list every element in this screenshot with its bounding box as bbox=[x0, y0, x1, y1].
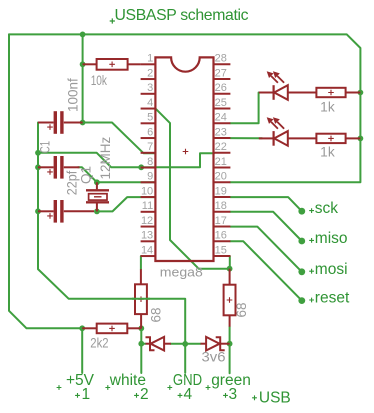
node mosi bbox=[298, 268, 305, 275]
pin 16 stub bbox=[214, 240, 231, 242]
svg-text:2k2: 2k2 bbox=[90, 335, 108, 350]
svg-text:8: 8 bbox=[147, 156, 153, 168]
svg-text:miso: miso bbox=[315, 230, 348, 247]
svg-text:1k: 1k bbox=[320, 145, 335, 160]
pin 19 stub bbox=[214, 196, 231, 198]
zener diode D1 3v6 (left) bbox=[146, 343, 151, 345]
resistor R3 1k bbox=[316, 134, 345, 143]
svg-text:16: 16 bbox=[215, 230, 227, 242]
wire 100nf to pin 7 bbox=[83, 123, 155, 154]
pin 21 stub bbox=[214, 167, 231, 169]
svg-text:+5V: +5V bbox=[66, 372, 95, 389]
pin 12 stub bbox=[141, 226, 156, 228]
wire GND to pin 8 and pin 22 bbox=[38, 153, 214, 168]
IC U1 origin cross bbox=[183, 149, 189, 155]
pin 25 stub bbox=[214, 108, 231, 110]
junction GND rail / pin8 wire bbox=[35, 150, 41, 156]
svg-text:mega8: mega8 bbox=[160, 265, 203, 280]
pin 3 stub bbox=[141, 93, 156, 95]
junction 2k2 / +5V bbox=[79, 325, 85, 331]
svg-text:1: 1 bbox=[147, 53, 153, 65]
svg-text:68: 68 bbox=[234, 302, 249, 317]
svg-text:28: 28 bbox=[215, 53, 227, 65]
svg-text:4: 4 bbox=[147, 97, 153, 109]
svg-text:9: 9 bbox=[147, 171, 153, 183]
node miso bbox=[298, 238, 305, 245]
capacitor C2 22pf bbox=[38, 166, 54, 168]
pin 6 stub bbox=[141, 137, 156, 139]
junction GND rail / C2 bbox=[35, 164, 41, 170]
pin 4 stub bbox=[141, 108, 156, 110]
crystal Q1 12MHz bbox=[96, 182, 98, 189]
svg-text:7: 7 bbox=[147, 141, 153, 153]
wire VCC: top rail, right rail down to pin 20 bbox=[9, 34, 360, 182]
svg-text:11: 11 bbox=[142, 200, 153, 212]
junction 100nf/VCC bbox=[80, 120, 86, 126]
wire GND: left ground rail to GND terminal bbox=[38, 123, 185, 373]
pin 14 stub bbox=[141, 255, 156, 257]
pin 17 stub bbox=[214, 226, 231, 228]
wire pin 24 to LED1 bbox=[230, 93, 262, 124]
junction zener row / GND bbox=[182, 341, 188, 347]
LED LED1 bbox=[259, 92, 274, 94]
svg-text:26: 26 bbox=[215, 82, 227, 94]
svg-text:1k: 1k bbox=[320, 100, 335, 115]
pin 1 stub bbox=[141, 63, 156, 65]
junction VCC top bbox=[80, 32, 86, 38]
svg-text:sck: sck bbox=[315, 200, 339, 217]
wire GND overlay across R4 bbox=[132, 298, 150, 300]
svg-text:22: 22 bbox=[215, 141, 227, 153]
pin 20 stub bbox=[214, 181, 231, 183]
junction pin15 / 68-ohm bbox=[227, 266, 233, 272]
svg-text:2: 2 bbox=[140, 386, 149, 403]
pin 22 stub bbox=[214, 152, 231, 154]
svg-text:100nf: 100nf bbox=[66, 78, 81, 112]
wire pin 14 to 68-ohm resistor bbox=[140, 256, 142, 269]
junction R-1k LED1 / right rail bbox=[358, 90, 364, 96]
svg-text:22pf: 22pf bbox=[65, 171, 80, 196]
svg-text:21: 21 bbox=[215, 156, 227, 168]
svg-text:2: 2 bbox=[147, 67, 153, 79]
resistor R6 2k2 bbox=[82, 327, 97, 329]
svg-text:17: 17 bbox=[215, 215, 227, 227]
svg-text:reset: reset bbox=[315, 290, 350, 307]
wire pin 17 to mosi bbox=[230, 227, 302, 272]
pin 2 stub bbox=[141, 78, 156, 80]
pin 7 stub bbox=[141, 152, 156, 154]
pin 15 stub bbox=[214, 255, 231, 257]
zener diode D2 3v6 (right) bbox=[201, 343, 207, 345]
IC U1 mega8 body (DIL28) bbox=[155, 57, 213, 261]
svg-text:mosi: mosi bbox=[315, 261, 348, 278]
LED LED2 bbox=[259, 137, 274, 139]
svg-text:15: 15 bbox=[215, 244, 227, 256]
pin 26 stub bbox=[214, 93, 231, 95]
junction crystal bottom bbox=[94, 209, 100, 215]
svg-text:12: 12 bbox=[141, 215, 153, 227]
pin 27 stub bbox=[214, 78, 231, 80]
wire pin 23 to LED2 bbox=[230, 137, 262, 139]
svg-text:4: 4 bbox=[184, 386, 193, 403]
wire to +5V terminal bbox=[81, 328, 83, 373]
pin 13 stub bbox=[141, 240, 156, 242]
junction 2k2 / 68-ohm / white bbox=[138, 325, 144, 331]
svg-text:5: 5 bbox=[147, 112, 153, 124]
svg-text:3: 3 bbox=[147, 82, 153, 94]
wire pin 19 to sck bbox=[230, 197, 302, 211]
resistor R5 68 (right) bbox=[229, 269, 231, 285]
junction pin 8 wire bbox=[138, 164, 144, 170]
resistor R1 10k bbox=[83, 63, 97, 65]
wire VCC: left rail down to 2k2 resistor bbox=[9, 34, 82, 328]
pin 5 stub bbox=[141, 122, 156, 124]
svg-text:27: 27 bbox=[215, 67, 227, 79]
pin 18 stub bbox=[214, 211, 231, 213]
pin 23 stub bbox=[214, 137, 231, 139]
svg-text:23: 23 bbox=[215, 126, 227, 138]
svg-text:20: 20 bbox=[215, 171, 227, 183]
wire 68-ohm to zener and green terminal bbox=[229, 327, 231, 374]
node sck bbox=[298, 208, 305, 215]
svg-text:3v6: 3v6 bbox=[202, 349, 226, 364]
junction 10k/VCC bbox=[80, 61, 86, 67]
wire VCC drop to 10k and 100nf bbox=[82, 34, 84, 122]
pin 8 stub bbox=[141, 167, 156, 169]
svg-text:13: 13 bbox=[141, 230, 153, 242]
node reset bbox=[298, 297, 305, 304]
pin 10 stub bbox=[141, 196, 156, 198]
svg-text:1: 1 bbox=[82, 386, 91, 403]
svg-text:19: 19 bbox=[215, 185, 227, 197]
svg-text:C1: C1 bbox=[37, 141, 52, 153]
wire C2 to crystal top bbox=[78, 167, 97, 182]
wire junction to zener D1 bbox=[141, 343, 145, 345]
wire pin 18 to miso bbox=[230, 212, 302, 241]
svg-text:12MHz: 12MHz bbox=[98, 136, 113, 179]
svg-text:6: 6 bbox=[147, 126, 153, 138]
junction zener D1 / white bbox=[138, 341, 144, 347]
junction R-1k LED2 / right rail bbox=[358, 136, 364, 142]
svg-text:14: 14 bbox=[141, 244, 153, 256]
svg-text:Q1: Q1 bbox=[78, 166, 93, 184]
svg-text:25: 25 bbox=[215, 97, 227, 109]
wire 2k2/68 junction down to white terminal bbox=[140, 328, 142, 373]
resistor R2 1k bbox=[316, 88, 345, 97]
wire crystal top to pin 9 bbox=[97, 181, 155, 183]
wire pin 4 to 68-ohm junction bbox=[156, 109, 230, 269]
svg-text:18: 18 bbox=[215, 200, 227, 212]
wire crystal bottom to pin 10 bbox=[97, 197, 155, 211]
wire zener D1 to zener D2 via GND junction bbox=[170, 343, 200, 345]
svg-text:USB: USB bbox=[259, 390, 291, 407]
svg-text:68: 68 bbox=[148, 307, 163, 322]
svg-text:10k: 10k bbox=[91, 73, 107, 88]
svg-text:USBASP schematic: USBASP schematic bbox=[115, 7, 249, 24]
svg-text:3: 3 bbox=[229, 386, 238, 403]
junction crystal top bbox=[94, 179, 100, 185]
svg-text:10: 10 bbox=[141, 185, 153, 197]
capacitor C3 22pf bbox=[38, 210, 54, 212]
wire pin 16 to reset bbox=[230, 241, 302, 300]
wire pin 15 drop to 68-ohm junction bbox=[229, 256, 231, 269]
pin 28 stub bbox=[214, 63, 231, 65]
junction GND rail / C3 bbox=[35, 208, 41, 214]
pin 9 stub bbox=[141, 181, 156, 183]
pin 11 stub bbox=[141, 211, 156, 213]
capacitor 100nf bbox=[38, 122, 54, 124]
junction zener D2 / green terminal bbox=[227, 341, 233, 347]
resistor R4 68 (left) bbox=[140, 269, 142, 284]
svg-text:24: 24 bbox=[215, 112, 227, 124]
pin 24 stub bbox=[214, 122, 231, 124]
